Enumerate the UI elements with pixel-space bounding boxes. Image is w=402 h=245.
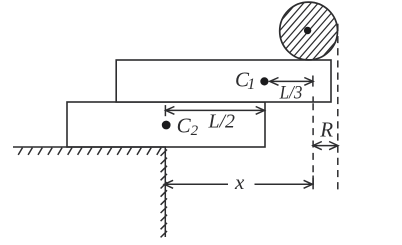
dimension arrow x (164, 180, 312, 188)
block B1 (upper rectangle) (116, 60, 331, 102)
svg-text:L/3: L/3 (279, 82, 303, 103)
tick above dashed line (below block B1 right region) (312, 96, 314, 102)
svg-text:x: x (234, 170, 245, 194)
dashed reference line at ball outer tangent (337, 24, 339, 190)
block B2 (lower rectangle) (67, 102, 265, 147)
svg-text:R: R (319, 118, 333, 142)
ground (table top line) (13, 146, 166, 148)
dimension arrow L/3 (270, 76, 313, 87)
ground hatching (18, 148, 161, 155)
dashed reference line at x-dimension end (312, 103, 314, 184)
ball hatching (268, 0, 350, 72)
table edge (vertical wall line) (164, 147, 166, 237)
svg-text:L/2: L/2 (208, 111, 235, 133)
ball centre dot (304, 27, 311, 34)
ball (circle outline) (280, 2, 338, 60)
C2 dot (centre of mass of lower block) (162, 121, 171, 130)
tick at end of x arrow (312, 176, 314, 190)
dimension arrow L/2 (165, 105, 264, 116)
dimension arrow R (313, 142, 338, 150)
C1 dot (centre of mass of upper block) (260, 77, 268, 85)
table edge hatching (161, 150, 167, 238)
